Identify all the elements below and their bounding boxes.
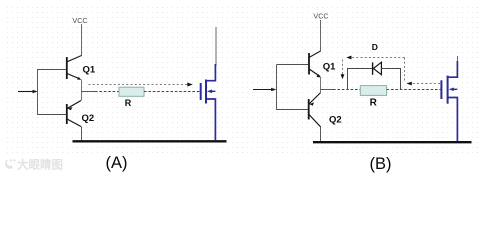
svg-text:R: R: [125, 98, 132, 108]
emitter junction wire (A): [81, 80, 83, 101]
diode D (B): [372, 42, 382, 75]
svg-text:Q1: Q1: [83, 65, 96, 76]
wire resistor to MOSFET gate (B): [387, 89, 442, 91]
svg-text:D: D: [372, 42, 378, 52]
resistor R (B): [360, 86, 386, 109]
transistor Q1 (NPN, B): [277, 53, 337, 78]
dashed discharge arrow from gate (B): [407, 82, 441, 86]
caption (B): [370, 155, 392, 173]
input arrow (B): [253, 88, 276, 92]
svg-text:大眼睛图: 大眼睛图: [17, 158, 63, 172]
svg-text:VCC: VCC: [313, 11, 328, 20]
emitter junction wire (B): [320, 77, 322, 93]
ground rail (B): [313, 141, 472, 143]
dashed discharge path along top (B): [346, 56, 404, 60]
node: gate drive net, red segment at junction (B): [321, 89, 334, 91]
caption (A): [106, 154, 128, 172]
MOSFET gate rail from top (A): [215, 27, 217, 66]
watermark logo: [5, 158, 63, 172]
svg-text:(A): (A): [106, 154, 128, 172]
wire VCC to Q1 collector (B): [309, 20, 321, 58]
dashed discharge path up right side (B): [404, 58, 406, 81]
VCC net label (B): [313, 11, 328, 20]
base bus wire (A): [37, 69, 39, 115]
wire VCC to Q1 collector (A): [67, 24, 82, 62]
Q2 collector to ground (A): [81, 127, 83, 141]
transistor Q2 (PNP, A): [38, 101, 95, 127]
MOSFET M2 (B): [441, 61, 457, 141]
transistor Q1 (NPN, A): [38, 57, 96, 80]
MOSFET drain stub (B): [457, 56, 459, 66]
transistor Q2 (PNP, B): [277, 93, 342, 128]
dashed discharge path down to driver (B): [341, 60, 345, 80]
dashed current-flow arrow toward gate (A): [89, 83, 193, 87]
svg-text:Q2: Q2: [82, 113, 95, 124]
input arrow (A): [18, 90, 38, 94]
svg-text:VCC: VCC: [72, 16, 87, 25]
VCC net label (A): [72, 16, 87, 25]
svg-text:R: R: [370, 98, 378, 109]
ground rail (A): [73, 140, 227, 142]
svg-text:(B): (B): [370, 155, 392, 173]
svg-text:Q2: Q2: [329, 115, 342, 126]
resistor R (A): [119, 87, 144, 108]
node: gate drive net, red segment at junction (A): [81, 91, 95, 93]
wire junction to resistor (A): [95, 91, 119, 93]
MOSFET M1 (A): [201, 64, 216, 140]
svg-text:Q1: Q1: [323, 62, 336, 73]
wire junction to resistor (B): [333, 89, 360, 91]
base bus wire (B): [276, 65, 278, 111]
Q2 collector to ground (B): [320, 127, 322, 142]
diode branch right wire (B): [381, 69, 400, 90]
diode branch left wire (B): [348, 69, 373, 90]
wire resistor to MOSFET gate (A): [144, 91, 201, 93]
